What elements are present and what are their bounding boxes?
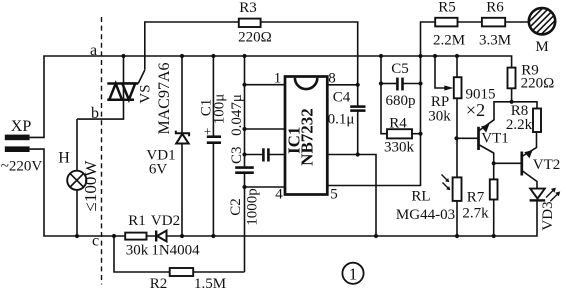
- svg-text:×2: ×2: [466, 100, 485, 120]
- svg-text:1: 1: [274, 71, 282, 87]
- svg-text:0.1μ: 0.1μ: [328, 112, 355, 128]
- svg-text:b: b: [91, 105, 99, 122]
- svg-text:R2: R2: [150, 276, 168, 290]
- svg-text:a: a: [90, 42, 97, 59]
- svg-text:MG44-03: MG44-03: [396, 207, 455, 223]
- svg-text:VT1: VT1: [481, 131, 509, 147]
- svg-text:2.2k: 2.2k: [506, 117, 533, 133]
- svg-text:H: H: [58, 150, 70, 167]
- svg-text:C4: C4: [333, 90, 351, 106]
- svg-text:MAC97A6: MAC97A6: [156, 62, 173, 134]
- svg-text:NB7232: NB7232: [298, 108, 317, 166]
- svg-text:RL: RL: [411, 189, 430, 205]
- svg-text:2.2M: 2.2M: [433, 33, 465, 49]
- svg-text:VS: VS: [138, 84, 154, 103]
- svg-text:220Ω: 220Ω: [521, 76, 555, 92]
- svg-text:M: M: [535, 39, 548, 55]
- svg-text:≤100W: ≤100W: [81, 160, 100, 212]
- svg-text:~220V: ~220V: [1, 159, 43, 175]
- svg-text:R1: R1: [128, 213, 146, 229]
- svg-text:c: c: [92, 233, 99, 250]
- svg-text:8: 8: [328, 71, 336, 87]
- svg-text:3.3M: 3.3M: [479, 33, 511, 49]
- svg-text:VD2: VD2: [151, 213, 180, 229]
- svg-text:1.5M: 1.5M: [194, 276, 226, 290]
- svg-text:R5: R5: [438, 0, 456, 16]
- svg-text:1N4004: 1N4004: [151, 243, 200, 259]
- svg-text:R6: R6: [486, 0, 504, 16]
- svg-text:100μ: 100μ: [212, 94, 228, 125]
- svg-text:C2: C2: [228, 198, 244, 216]
- svg-text:R3: R3: [239, 0, 257, 16]
- svg-text:0.047μ: 0.047μ: [229, 94, 245, 136]
- svg-text:30k: 30k: [126, 243, 149, 259]
- svg-text:330k: 330k: [384, 140, 415, 156]
- svg-text:1: 1: [349, 265, 358, 284]
- svg-text:680p: 680p: [386, 93, 416, 109]
- svg-text:R7: R7: [467, 190, 485, 206]
- svg-text:4: 4: [275, 187, 283, 203]
- svg-text:VD3: VD3: [540, 201, 556, 230]
- svg-text:R4: R4: [389, 116, 407, 132]
- svg-text:30k: 30k: [428, 109, 451, 125]
- svg-text:C5: C5: [391, 61, 409, 77]
- svg-text:2.7k: 2.7k: [462, 206, 489, 222]
- svg-text:C3: C3: [229, 147, 245, 165]
- svg-text:6V: 6V: [149, 162, 168, 178]
- svg-text:1000p: 1000p: [245, 188, 261, 226]
- svg-text:220Ω: 220Ω: [238, 30, 272, 46]
- svg-text:+: +: [204, 124, 211, 139]
- svg-text:VT2: VT2: [533, 157, 561, 173]
- svg-text:XP: XP: [11, 118, 32, 135]
- svg-text:5: 5: [330, 187, 338, 203]
